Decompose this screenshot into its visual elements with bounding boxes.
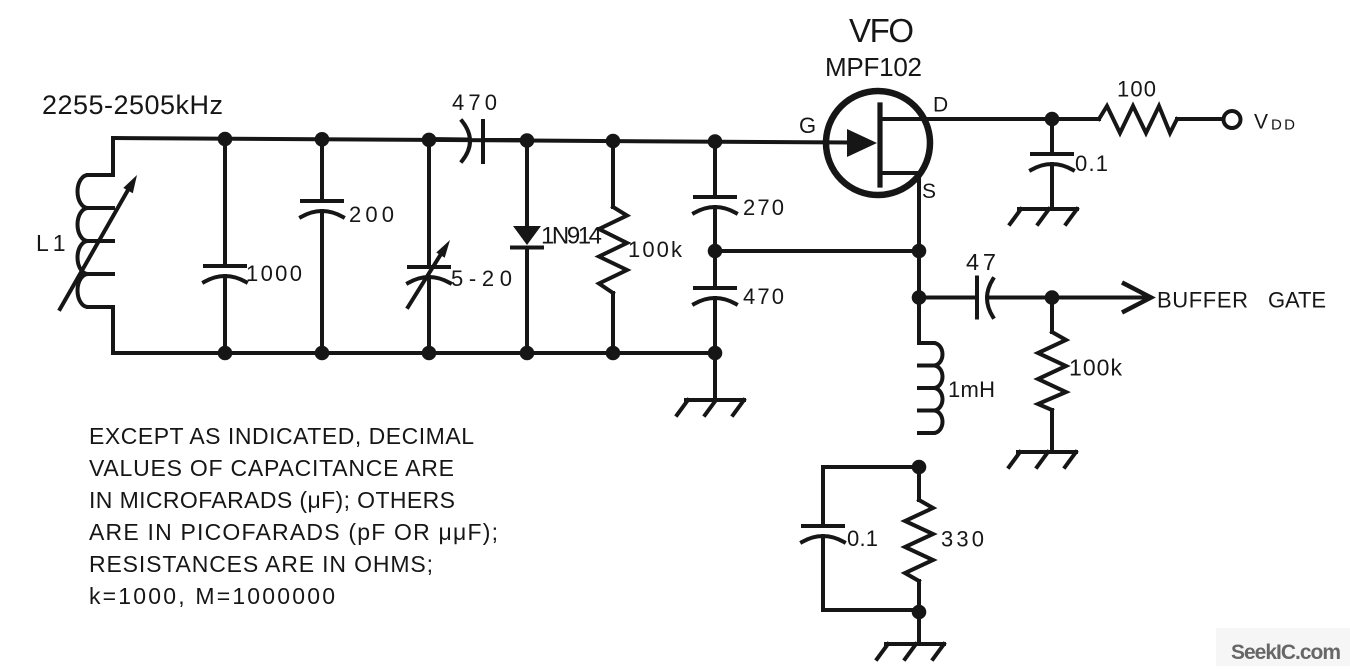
svg-text:GATE: GATE [1268,288,1326,313]
svg-text:0.1: 0.1 [847,526,878,551]
svg-text:100: 100 [1117,77,1156,102]
svg-text:470: 470 [743,284,784,309]
svg-text:VFO: VFO [849,12,914,49]
svg-text:330: 330 [941,527,984,552]
svg-text:S: S [922,180,936,203]
svg-text:SeekIC.com: SeekIC.com [1231,641,1341,664]
svg-text:G: G [799,113,816,138]
svg-text:470: 470 [452,90,497,115]
svg-text:ARE IN PICOFARADS (pF OR μμF);: ARE IN PICOFARADS (pF OR μμF); [89,519,498,545]
svg-text:1N914: 1N914 [541,223,602,250]
svg-text:0.1: 0.1 [1075,151,1108,176]
svg-text:k=1000, M=1000000: k=1000, M=1000000 [89,583,335,609]
svg-text:2255-2505kHz: 2255-2505kHz [42,90,223,120]
svg-text:V: V [1254,111,1268,134]
svg-text:EXCEPT AS INDICATED, DECIMAL: EXCEPT AS INDICATED, DECIMAL [89,423,474,449]
svg-text:L1: L1 [36,230,70,256]
svg-text:200: 200 [349,202,394,227]
svg-text:100k: 100k [1069,355,1123,381]
svg-text:IN MICROFARADS (μF); OTHERS: IN MICROFARADS (μF); OTHERS [89,487,455,513]
svg-text:MPF102: MPF102 [825,52,922,82]
svg-text:VALUES OF CAPACITANCE ARE: VALUES OF CAPACITANCE ARE [89,455,454,481]
svg-text:270: 270 [743,195,784,220]
svg-text:5-20: 5-20 [451,266,512,291]
svg-text:1mH: 1mH [948,377,995,402]
svg-text:D: D [933,94,948,117]
svg-text:BUFFER: BUFFER [1157,288,1248,313]
svg-text:RESISTANCES ARE IN OHMS;: RESISTANCES ARE IN OHMS; [89,551,433,577]
